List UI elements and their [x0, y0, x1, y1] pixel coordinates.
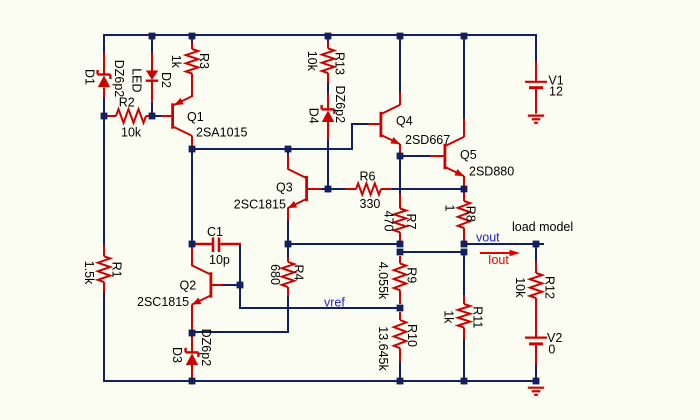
wire R10 bottom: [399, 362, 401, 381]
value R6 330: [360, 197, 381, 211]
svg-text:R6: R6: [360, 170, 376, 184]
svg-text:LED: LED: [130, 68, 144, 92]
svg-text:DZ6p2: DZ6p2: [333, 86, 347, 124]
svg-text:2SA1015: 2SA1015: [196, 126, 247, 140]
resistor R1 body: [98, 256, 110, 282]
capacitor C1 plate left: [212, 238, 215, 253]
svg-text:1.5k: 1.5k: [82, 261, 96, 285]
battery V1 lead top: [535, 61, 537, 81]
svg-text:330: 330: [360, 197, 381, 211]
svg-text:D2: D2: [159, 72, 173, 88]
wire collector rail y149: [192, 148, 352, 150]
wire D2 bottom: [151, 102, 153, 116]
diode D4 lead bottom: [327, 122, 329, 140]
diode D3 lead top: [191, 333, 193, 353]
svg-text:2SD880: 2SD880: [469, 165, 514, 179]
value D3 DZ6p2: [199, 329, 213, 367]
wire R11 bottom: [463, 339, 465, 381]
junction V2 / bottom rail / ground: [533, 378, 540, 385]
value R13 10k: [305, 51, 319, 72]
svg-text:R2: R2: [119, 96, 135, 110]
battery V2 plate short: [529, 342, 543, 345]
wire R13 to D4: [327, 83, 329, 93]
svg-text:R9: R9: [405, 267, 419, 283]
value R1 1.5k: [82, 261, 96, 285]
label R11: [471, 306, 485, 328]
wire R8-R11 vertical: [463, 252, 465, 295]
wire R6 to Q5 emitter rail: [391, 188, 464, 190]
junction top rail / Q5: [461, 33, 468, 40]
resistor R13 lead top: [327, 42, 329, 49]
resistor R9 lead bottom: [399, 290, 401, 304]
transistor Q2 collector lead: [191, 247, 193, 266]
resistor R10 lead top: [399, 312, 401, 320]
svg-text:Q1: Q1: [187, 110, 204, 124]
wire V1 top: [535, 34, 537, 61]
junction D4 / Q3 base: [325, 186, 332, 193]
junction Q5 emitter / R8: [461, 186, 468, 193]
svg-text:680: 680: [268, 264, 282, 285]
label R9: [405, 267, 419, 283]
wire left rail mid: [103, 98, 105, 245]
value R7 470: [382, 211, 396, 232]
annotation Iout arrowhead: [510, 250, 521, 256]
value R11 1k: [442, 310, 456, 324]
transistor Q3 collector lead: [287, 156, 289, 170]
label Q4: [396, 114, 413, 128]
resistor R10 lead bottom: [399, 348, 401, 362]
wire Q4 emitter to R7: [399, 156, 401, 194]
label D2: [159, 72, 173, 88]
svg-text:13.645k: 13.645k: [376, 326, 390, 371]
value V2 0: [548, 343, 555, 357]
resistor R4 body: [282, 262, 294, 287]
annotation Iout text: [488, 253, 509, 267]
junction top rail / R13: [325, 33, 332, 40]
capacitor C1 lead right: [220, 243, 241, 245]
junction Q3 emitter / R4: [285, 241, 292, 248]
svg-text:1k: 1k: [169, 55, 183, 69]
junction top rail / D2: [149, 33, 156, 40]
zener diode D1: [98, 70, 111, 87]
resistor R3 lead top: [191, 42, 193, 50]
label Q2: [180, 279, 197, 293]
value Q2 2SC1815: [137, 295, 189, 309]
label R4: [292, 265, 306, 281]
wire vref from C1 junction: [240, 285, 400, 308]
svg-text:Q4: Q4: [396, 114, 413, 128]
junction C1 / Q2 base: [237, 282, 244, 289]
transistor Q4 collector lead: [399, 93, 401, 106]
value Q5 2SD880: [469, 165, 514, 179]
wire Q3 base to R6: [321, 188, 345, 190]
transistor Q5: [445, 137, 464, 176]
transistor Q5 collector lead: [463, 119, 465, 138]
label R1: [109, 262, 123, 278]
svg-text:1: 1: [442, 205, 456, 212]
wire D2 top: [151, 34, 153, 53]
transistor Q4 base lead: [368, 123, 380, 125]
svg-text:Q2: Q2: [180, 279, 197, 293]
ground V1 bar1: [528, 114, 544, 116]
transistor Q3 emitter lead: [287, 208, 289, 221]
svg-text:4.055k: 4.055k: [376, 262, 390, 300]
wire R13 top stub: [327, 34, 329, 42]
resistor R2 lead right: [146, 115, 150, 117]
resistor R11 lead top: [463, 295, 465, 304]
resistor R8 lead top: [463, 192, 465, 201]
wire R2 to Q1 base: [155, 115, 161, 117]
junction R7 / node A: [397, 241, 404, 248]
transistor Q2 base lead: [212, 284, 223, 286]
label V1: [548, 74, 563, 88]
battery V1 lead bottom: [535, 89, 537, 113]
transistor Q4: [381, 105, 400, 144]
svg-text:2SC1815: 2SC1815: [137, 295, 189, 309]
svg-text:R3: R3: [197, 53, 211, 69]
transistor Q2: [192, 265, 211, 304]
diode D4 lead top: [327, 93, 329, 110]
label R10: [405, 324, 419, 347]
resistor R11 lead bottom: [463, 328, 465, 340]
resistor R11 body: [458, 304, 470, 328]
svg-text:load model: load model: [512, 220, 573, 234]
label R7: [404, 214, 418, 230]
wire Q5 collector vertical: [463, 34, 465, 119]
svg-text:10k: 10k: [121, 125, 142, 139]
resistor R4 lead bottom: [287, 287, 289, 296]
junction R11 top: [461, 249, 468, 256]
value R3 1k: [169, 55, 183, 69]
resistor R13 lead bottom: [327, 73, 329, 83]
junction R11 / bottom rail: [461, 378, 468, 385]
svg-text:R1: R1: [109, 262, 123, 278]
junction Q1 collector rail: [189, 146, 196, 153]
resistor R4 lead top: [287, 258, 289, 263]
wire D4 down to Q3 base rail: [327, 140, 329, 189]
transistor Q3: [288, 169, 307, 208]
resistor R12 lead top: [535, 261, 537, 273]
wire vout to load model: [464, 243, 544, 245]
svg-text:12: 12: [549, 85, 563, 99]
svg-text:Q5: Q5: [460, 148, 477, 162]
zener diode D4: [322, 105, 335, 122]
label Q1: [187, 110, 204, 124]
resistor R10 body: [394, 320, 406, 348]
wire Q5 base: [400, 155, 430, 157]
svg-text:D3: D3: [170, 347, 184, 363]
value R4 680: [268, 264, 282, 285]
value R10 13.645k: [376, 326, 390, 371]
value R12 10k: [513, 277, 527, 298]
wire node A to R7R9: [288, 243, 400, 245]
svg-text:R12: R12: [543, 276, 557, 299]
wire left rail upper: [103, 34, 105, 53]
transistor Q5 base lead: [430, 155, 444, 157]
svg-text:1k: 1k: [442, 310, 456, 324]
wire R4 top stub: [287, 244, 289, 258]
resistor R8 lead bottom: [463, 228, 465, 241]
label R3: [197, 53, 211, 69]
resistor R12 body: [530, 273, 542, 298]
transistor Q1 emitter lead: [191, 74, 193, 97]
junction vout / load model: [533, 241, 540, 248]
wire bottom rail: [103, 380, 536, 382]
svg-text:470: 470: [382, 211, 396, 232]
resistor R7 lead bottom: [399, 232, 401, 241]
svg-text:2SD667: 2SD667: [405, 133, 450, 147]
zener diode D3: [186, 348, 199, 365]
resistor R3 lead bottom: [191, 74, 193, 97]
svg-text:R4: R4: [292, 265, 306, 281]
junction Q4 emitter / Q5 base: [397, 153, 404, 160]
svg-text:10k: 10k: [305, 51, 319, 72]
net label vref: [324, 295, 345, 309]
wire Q3 collector stub: [287, 149, 289, 156]
svg-text:DZ6p2: DZ6p2: [112, 60, 126, 98]
LED D2 bar: [146, 79, 158, 81]
battery V2 lead bottom: [535, 345, 537, 365]
svg-text:vref: vref: [324, 295, 345, 309]
transistor Q1 collector lead: [191, 136, 193, 150]
transistor Q2 emitter lead: [191, 305, 193, 334]
label LED: [130, 68, 144, 92]
value R9 4.055k: [376, 262, 390, 300]
transistor Q1: [173, 96, 192, 135]
ground V1 bar2: [532, 118, 541, 120]
svg-text:10p: 10p: [209, 253, 230, 267]
junction R2 / D2 / Q1 base: [149, 113, 156, 120]
battery V1 plate short: [529, 86, 543, 89]
wire R4 bottom to D3: [192, 296, 288, 332]
svg-text:10k: 10k: [513, 277, 527, 298]
annotation Iout arrow line: [480, 252, 511, 254]
ground V1 bar3: [534, 122, 538, 124]
svg-text:R8: R8: [464, 206, 478, 222]
resistor R9 lead top: [399, 256, 401, 263]
junction Q2 emitter / D3: [189, 330, 196, 337]
transistor Q5 emitter lead: [463, 176, 465, 189]
ground V2 bar1: [528, 387, 544, 389]
label R8: [464, 206, 478, 222]
diode D2 lead bottom: [151, 81, 153, 102]
resistor R9 body: [394, 263, 406, 290]
label V2: [547, 331, 562, 345]
svg-text:R11: R11: [471, 306, 485, 328]
label R6: [360, 170, 376, 184]
junction C1 / Q2 collector: [189, 241, 196, 248]
transistor Q1 base lead: [161, 115, 171, 117]
value Q4 2SD667: [405, 133, 450, 147]
svg-text:DZ6p2: DZ6p2: [199, 329, 213, 367]
wire R3 top stub: [191, 34, 193, 42]
resistor R2 lead left: [107, 115, 116, 117]
transistor Q3 base lead: [307, 188, 321, 190]
resistor R7 lead top: [399, 194, 401, 209]
label D4: [307, 108, 321, 124]
wire Q4 base corner: [352, 124, 368, 150]
label Q5: [460, 148, 477, 162]
junction D3 / bottom rail: [189, 378, 196, 385]
battery V2 plate long: [525, 337, 547, 339]
svg-text:R10: R10: [405, 324, 419, 347]
value D4 DZ6p2: [333, 86, 347, 124]
capacitor C1 lead left: [195, 243, 212, 245]
junction R10 / bottom rail: [397, 378, 404, 385]
capacitor C1 plate right: [218, 238, 221, 253]
resistor R8 body: [458, 201, 470, 228]
wire left rail lower: [103, 292, 105, 382]
junction left rail / R2: [101, 113, 108, 120]
svg-text:vout: vout: [476, 230, 500, 244]
wire Q2 base: [223, 284, 240, 286]
label R13: [333, 52, 347, 75]
transistor Q4 emitter lead: [399, 144, 401, 156]
wire V2 bottom stub: [535, 365, 537, 381]
wire C1 corner down: [239, 244, 241, 285]
resistor R13 body: [322, 49, 334, 74]
value R8 1: [442, 205, 456, 212]
resistor R6 lead left: [345, 188, 356, 190]
svg-text:D4: D4: [307, 108, 321, 124]
label Q3: [276, 181, 293, 195]
wire Q4 collector vertical: [399, 34, 401, 93]
junction top rail / Q4: [397, 33, 404, 40]
svg-text:2SC1815: 2SC1815: [234, 198, 286, 212]
svg-text:0: 0: [548, 343, 555, 357]
junction vref / R9 / R10: [397, 305, 404, 312]
annotation load model: [512, 220, 573, 234]
label D1: [83, 69, 97, 85]
resistor R7 body: [394, 209, 406, 233]
ground V2 bar2: [532, 390, 541, 392]
resistor R2 body: [116, 109, 146, 123]
LED D2 triangle: [146, 71, 158, 81]
svg-text:D1: D1: [83, 69, 97, 85]
label D3: [170, 347, 184, 363]
value R2 10k: [121, 125, 142, 139]
value Q1 2SA1015: [196, 126, 247, 140]
wire load top stub: [535, 244, 537, 261]
value C1 10p: [209, 253, 230, 267]
diode D1 lead top: [103, 53, 105, 76]
net label vout: [476, 230, 500, 244]
svg-text:Q3: Q3: [276, 181, 293, 195]
wire R7R9 to R8R11: [400, 251, 464, 253]
resistor R6 lead right: [381, 188, 392, 190]
resistor R1 lead top: [103, 245, 105, 256]
diode D2 lead top: [151, 53, 153, 71]
svg-text:R7: R7: [404, 214, 418, 230]
ground V2 bar3: [534, 394, 538, 396]
label C1: [207, 225, 223, 239]
wire Q3 emitter stub: [287, 220, 289, 244]
resistor R6 body: [356, 183, 381, 194]
value Q3 2SC1815: [234, 198, 286, 212]
junction Q3 collector: [285, 146, 292, 153]
svg-text:Iout: Iout: [488, 253, 509, 267]
diode D3 lead bottom: [191, 365, 193, 378]
junction R8 / vout: [461, 241, 468, 248]
wire Q1 collector rail vertical: [191, 149, 193, 244]
resistor R1 lead bottom: [103, 282, 105, 293]
svg-text:C1: C1: [207, 225, 223, 239]
resistor R3 body: [186, 49, 198, 74]
junction top rail / R3: [189, 33, 196, 40]
label R12: [543, 276, 557, 299]
junction R9 top: [397, 249, 404, 256]
resistor R12 lead bottom: [535, 298, 537, 337]
wire top rail: [103, 34, 537, 36]
battery V1 plate long: [525, 81, 547, 83]
diode D1 lead bottom: [103, 88, 105, 99]
label R2: [119, 96, 135, 110]
value V1 12: [549, 85, 563, 99]
value D1 DZ6p2: [112, 60, 126, 98]
svg-text:R13: R13: [333, 52, 347, 75]
